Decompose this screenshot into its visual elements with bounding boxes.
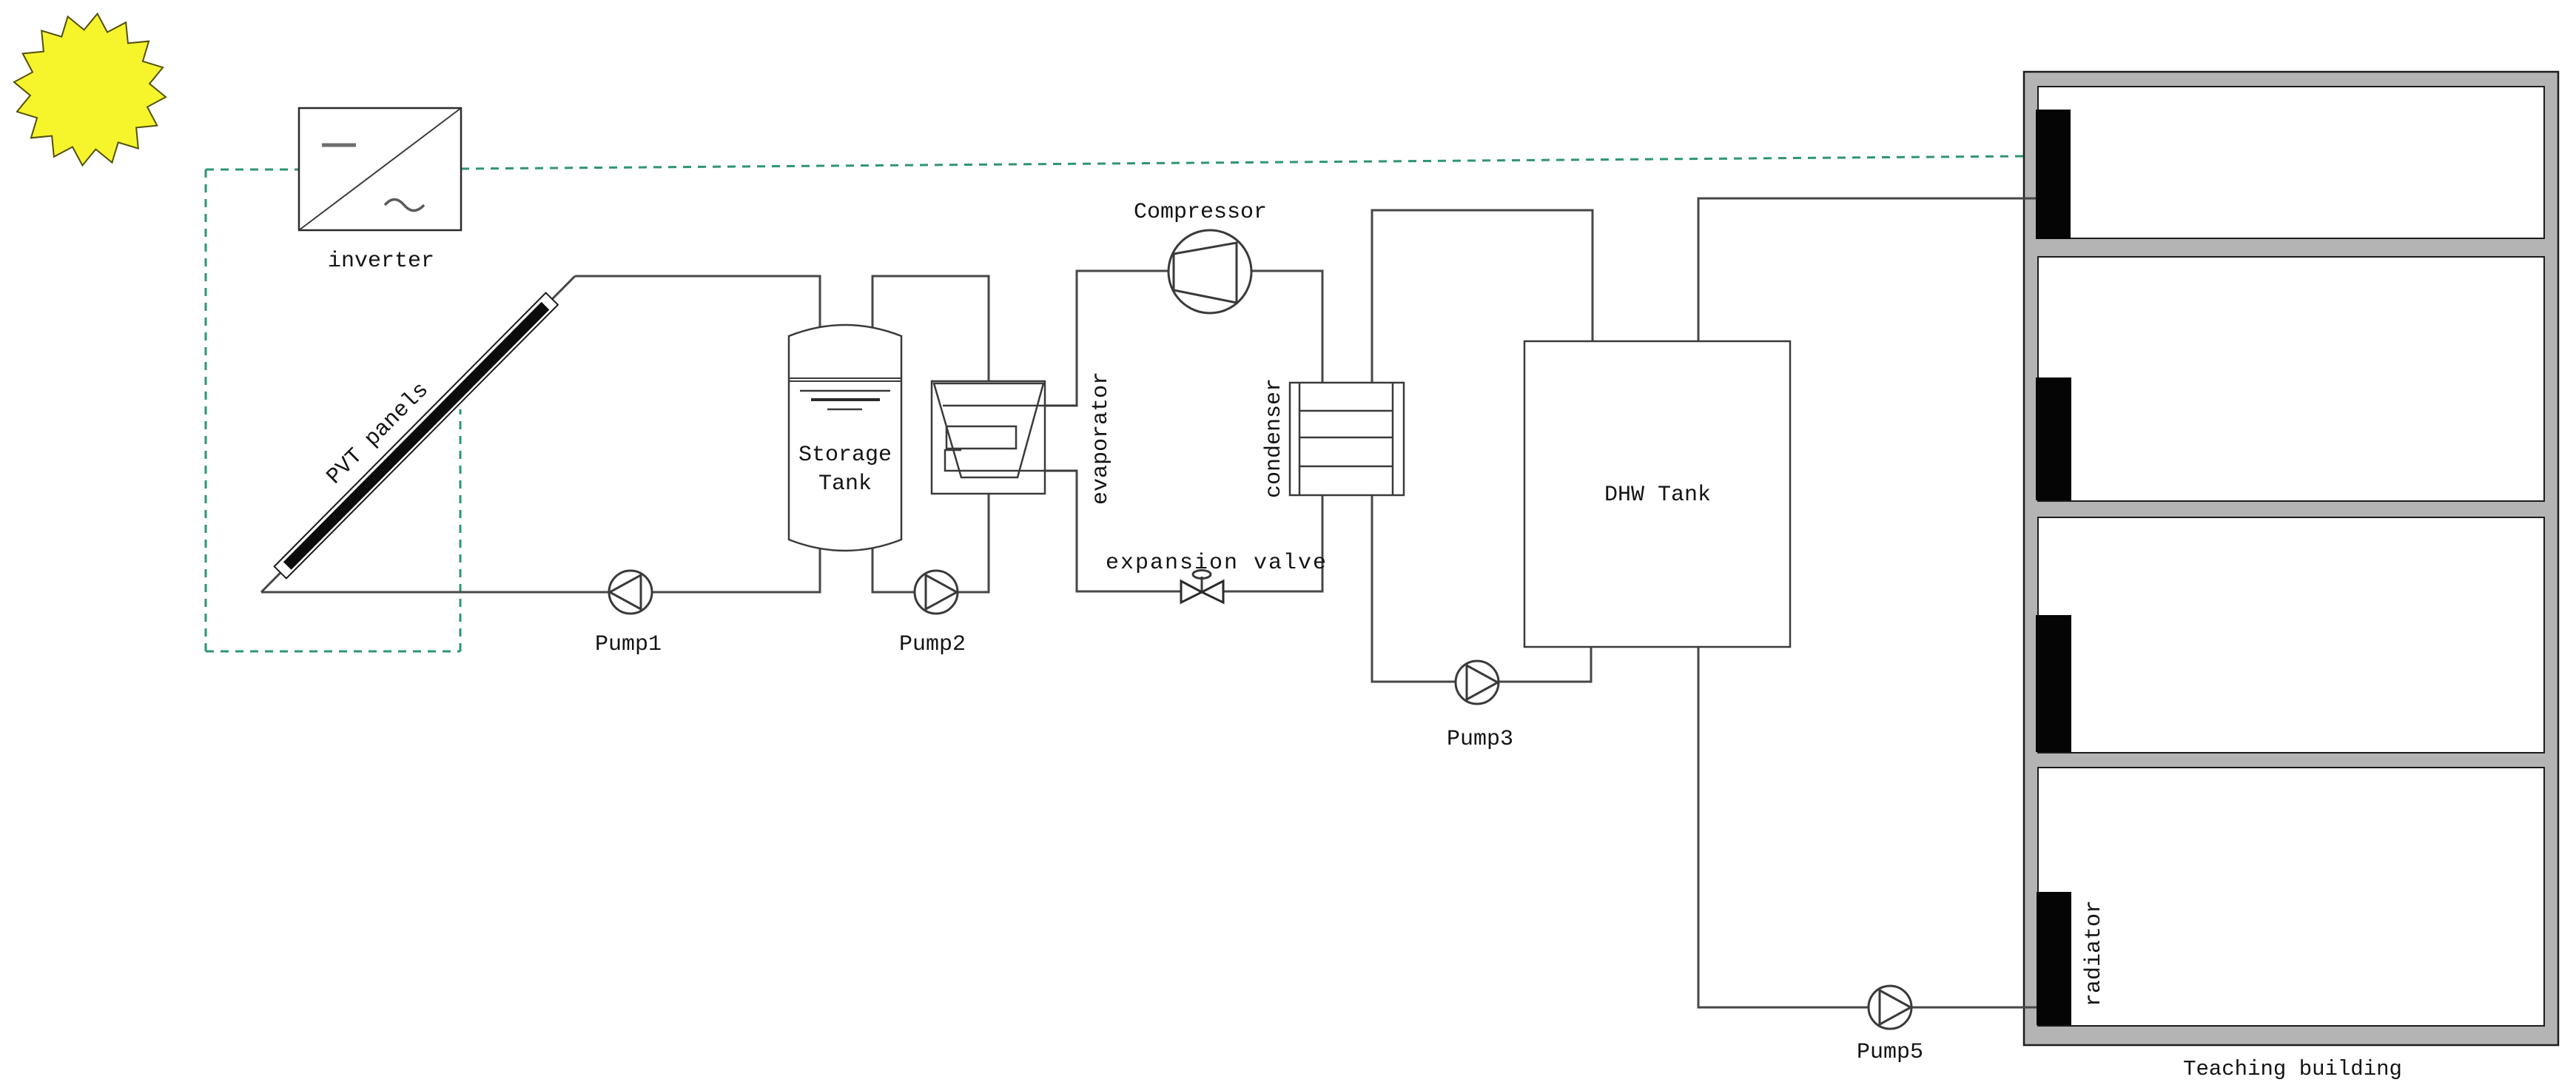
svg-text:DHW Tank: DHW Tank	[1604, 483, 1711, 508]
svg-text:Pump2: Pump2	[899, 632, 966, 657]
svg-text:Pump1: Pump1	[595, 632, 662, 657]
svg-text:Compressor: Compressor	[1134, 200, 1267, 225]
svg-text:evaporator: evaporator	[1089, 372, 1114, 505]
svg-text:Teaching building: Teaching building	[2183, 1057, 2402, 1081]
svg-text:expansion valve: expansion valve	[1106, 551, 1328, 576]
svg-text:Tank: Tank	[818, 471, 872, 497]
svg-text:Pump3: Pump3	[1447, 727, 1513, 752]
svg-text:radiator: radiator	[2082, 900, 2107, 1007]
svg-text:Storage: Storage	[798, 443, 892, 468]
svg-text:condenser: condenser	[1262, 378, 1287, 498]
svg-text:Pump5: Pump5	[1857, 1040, 1923, 1065]
svg-text:inverter: inverter	[328, 249, 434, 274]
